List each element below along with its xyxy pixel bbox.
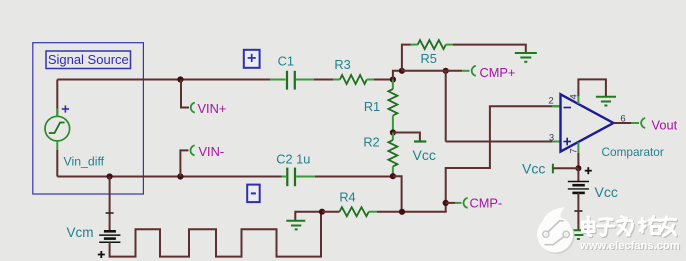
wire C1 to R3 bbox=[314, 79, 333, 81]
pin hook CMP+ bbox=[472, 66, 476, 76]
svg-text:R5: R5 bbox=[421, 51, 437, 66]
resistor R2 lead bottom bbox=[392, 166, 394, 176]
svg-text:Vcm: Vcm bbox=[67, 225, 94, 240]
resistor R5 zigzag bbox=[418, 40, 446, 49]
wire top: source stem up bbox=[56, 80, 58, 117]
battery Vcm bbox=[99, 231, 120, 242]
wire R5 left riser bbox=[402, 45, 411, 71]
watermark chinese chars bbox=[583, 217, 676, 236]
svg-text:Vcc: Vcc bbox=[595, 184, 618, 200]
svg-text:CMP+: CMP+ bbox=[480, 65, 516, 80]
pin hook VIN+ bbox=[191, 103, 195, 113]
wire R2 node to CMP- line bbox=[393, 176, 402, 212]
svg-text:R4: R4 bbox=[339, 190, 355, 205]
source circle bbox=[45, 116, 70, 141]
svg-text:Signal Source: Signal Source bbox=[48, 52, 129, 67]
logo pads bbox=[543, 231, 549, 237]
lead CMP+ bbox=[462, 70, 470, 72]
capacitor C1 plates bbox=[286, 71, 288, 90]
node CMP- bbox=[443, 200, 449, 206]
resistor R3 lead left bbox=[333, 79, 340, 81]
wire Vcm stem bbox=[109, 177, 111, 232]
source step symbol bbox=[49, 123, 65, 134]
node VIN+ junction bbox=[177, 76, 183, 82]
wire battery stem bottom bbox=[577, 193, 579, 230]
ground near C2 bbox=[295, 212, 322, 221]
svg-text:VIN-: VIN- bbox=[199, 144, 225, 159]
wire CMP+ node down to pin3 bbox=[445, 71, 447, 142]
resistor R4 lead left bbox=[322, 211, 340, 213]
svg-text:3: 3 bbox=[549, 133, 554, 144]
source stem green bottom bbox=[56, 141, 58, 150]
signal source title box bbox=[46, 51, 131, 69]
pin hook CMP- bbox=[464, 198, 468, 208]
capacitor C1 lead right bbox=[296, 79, 314, 81]
ground at R5 bbox=[515, 53, 537, 62]
wire node up to R5 line bbox=[393, 71, 402, 80]
wire VIN- stem bbox=[180, 150, 188, 176]
svg-text:2: 2 bbox=[548, 96, 553, 107]
resistor R1 zigzag bbox=[388, 89, 397, 115]
comparator U1 triangle bbox=[561, 94, 614, 151]
svg-text:Comparator: Comparator bbox=[602, 145, 664, 159]
svg-text:R2: R2 bbox=[363, 135, 379, 150]
lead CMP- bbox=[446, 202, 455, 204]
svg-text:www.elecfans.com: www.elecfans.com bbox=[579, 240, 680, 252]
node Vcm bbox=[107, 173, 113, 179]
resistor R3 zigzag bbox=[340, 75, 367, 84]
svg-text:CMP-: CMP- bbox=[470, 196, 503, 211]
node R5 left bbox=[399, 68, 405, 74]
logo blob bbox=[537, 217, 573, 253]
capacitor C2 lead right bbox=[296, 176, 315, 178]
svg-text:Vout: Vout bbox=[652, 118, 678, 133]
wire top horizontal to C1 bbox=[57, 79, 272, 81]
pin2 green stub bbox=[552, 105, 560, 107]
svg-text:VIN+: VIN+ bbox=[198, 101, 227, 116]
resistor R5 lead right bbox=[446, 44, 453, 46]
wire pin3 bbox=[446, 141, 552, 143]
node R3/R1 bbox=[390, 76, 396, 82]
capacitor C2 plates bbox=[286, 168, 288, 187]
node VIN- bbox=[177, 173, 183, 179]
svg-text:C1: C1 bbox=[278, 53, 294, 68]
resistor R1 lead bottom bbox=[392, 116, 394, 133]
resistor R1 lead top bbox=[392, 80, 394, 90]
vcc tap bar bbox=[552, 164, 554, 174]
wire R4 to CMP- bbox=[377, 211, 447, 213]
svg-text:Vcc: Vcc bbox=[522, 161, 545, 177]
source plus bbox=[62, 105, 69, 112]
signal source outer box bbox=[33, 43, 144, 194]
wire pin6 bbox=[613, 122, 631, 124]
node R2 bottom bbox=[390, 173, 396, 179]
plus symbol pin3 bbox=[564, 138, 572, 146]
svg-text:Vcc: Vcc bbox=[413, 147, 436, 163]
resistor R4 zigzag bbox=[340, 207, 369, 216]
ground at pin4 bbox=[596, 97, 616, 106]
resistor R2 zigzag bbox=[388, 140, 397, 166]
svg-text:C2 1u: C2 1u bbox=[276, 152, 310, 167]
node pin7 bbox=[575, 165, 581, 171]
node R1/R2 bbox=[390, 129, 396, 135]
logo traces bbox=[545, 221, 563, 245]
watermark bbox=[537, 207, 681, 254]
minus box bbox=[247, 185, 260, 203]
wire bottom horizontal bbox=[57, 176, 281, 178]
wire R3 to node bbox=[374, 79, 393, 81]
wire VIN+ stem bbox=[181, 80, 189, 108]
wire pin4 to ground bbox=[578, 79, 606, 96]
svg-text:Vin_diff: Vin_diff bbox=[64, 154, 105, 168]
plus box bbox=[244, 50, 260, 68]
svg-text:R1: R1 bbox=[364, 99, 380, 114]
vcc tick bar bbox=[414, 140, 426, 142]
ground at battery bbox=[568, 230, 588, 239]
pin3 green stub bbox=[552, 141, 560, 143]
node R4/R2 bbox=[399, 209, 405, 215]
resistor R2 lead top bbox=[392, 133, 394, 141]
resistor R4 lead right bbox=[369, 211, 377, 213]
source stem green top bbox=[56, 109, 58, 117]
wire pin2 bbox=[446, 106, 560, 212]
wire R5 right to ground bbox=[453, 45, 526, 53]
node R4 left bbox=[319, 209, 325, 215]
watermark chinese chars shadow bbox=[584, 218, 677, 237]
resistor R5 lead left bbox=[411, 44, 418, 46]
wire battery stem top bbox=[577, 168, 579, 181]
battery Vcc bbox=[568, 182, 589, 193]
pin hook VIN- bbox=[191, 145, 195, 155]
wire vcc tap bbox=[553, 167, 579, 169]
vcm stem tick bbox=[106, 212, 114, 214]
pin hook Vout bbox=[641, 118, 645, 128]
battery plus bbox=[585, 167, 592, 174]
wire square wave bbox=[110, 212, 321, 257]
minus symbol pin2 bbox=[564, 107, 572, 109]
wire pin7 stem bbox=[577, 142, 579, 153]
wire C2 to R2 node bbox=[315, 176, 393, 178]
resistor R3 lead right bbox=[367, 79, 374, 81]
vcm battery plus bbox=[98, 251, 105, 258]
svg-text:R3: R3 bbox=[334, 57, 350, 72]
node CMP+ left bbox=[443, 68, 449, 74]
capacitor C2 lead left bbox=[282, 176, 287, 178]
wire to Vcc tick bbox=[393, 133, 420, 141]
logo blob shadow bbox=[539, 218, 575, 254]
wire bottom: source stem down bbox=[56, 150, 58, 177]
capacitor C1 lead left bbox=[270, 79, 286, 81]
wire R5line to CMP+ bbox=[402, 70, 462, 72]
wire battery stem bottom tick bbox=[574, 210, 582, 212]
